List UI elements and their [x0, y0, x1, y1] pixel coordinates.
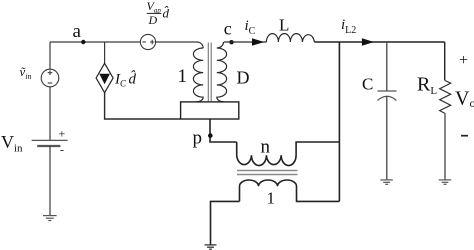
svg-text:d̂: d̂ [163, 6, 170, 21]
ground (load) [439, 180, 452, 184]
inductor L [266, 34, 314, 42]
node c [229, 40, 233, 44]
svg-text:a: a [73, 21, 82, 42]
wire top rail from input corner to voltage source [50, 41, 140, 43]
wire output rail down to capacitor [386, 42, 388, 91]
ac source v~in [41, 69, 59, 87]
wire voltage source to transformer primary [156, 42, 204, 48]
current arrow i_L2 [362, 38, 374, 45]
node p [208, 133, 213, 138]
transformer T1 secondary winding [217, 42, 227, 102]
svg-text:1: 1 [267, 189, 276, 208]
label (Vap/D)d [147, 0, 170, 27]
dependent current source I_C d [96, 63, 113, 92]
transformer T2 bottom winding 1 [240, 180, 340, 201]
capacitor C [378, 91, 397, 101]
battery V_in [32, 127, 68, 157]
transformer T2 top winding n [237, 142, 340, 166]
wire v~in source to battery [49, 87, 51, 140]
resistor R_L [440, 81, 451, 114]
wire battery to input ground [49, 146, 51, 215]
ground (capacitor) [380, 180, 393, 184]
dependent voltage source (Vap/D)d [140, 34, 155, 49]
svg-text:D: D [148, 13, 158, 27]
fraction bar of Vap/D [147, 12, 162, 14]
current arrow i_C [252, 38, 264, 45]
transformer T2 core [237, 171, 298, 175]
wire node c to inductor [224, 41, 267, 43]
ground (transformer) [205, 245, 217, 249]
wire inductor to load corner [314, 41, 444, 43]
wire T2 bottom winding to transformer ground [211, 201, 240, 244]
svg-text:-: - [60, 143, 64, 157]
svg-text:1: 1 [178, 66, 188, 87]
wire T1 bus to node p and to T2 [210, 119, 237, 142]
wire current source bottom to transformer bus [105, 93, 181, 119]
svg-text:C: C [362, 75, 373, 94]
svg-text:D: D [237, 68, 250, 88]
node a [81, 40, 85, 44]
svg-text:n: n [261, 136, 271, 157]
svg-text:p: p [193, 128, 203, 149]
wire output corner down to resistor [444, 42, 446, 81]
wire left rail down from corner to v_in source [49, 42, 51, 69]
svg-text:+: + [59, 127, 66, 141]
wire capacitor to ground [386, 96, 388, 179]
label output minus [461, 135, 468, 137]
wire right bus joining T2 windings to output rail [338, 42, 340, 201]
ground (input) [43, 216, 57, 221]
transformer T1 bottom bus bar [181, 102, 239, 119]
transformer T1 primary winding [193, 48, 203, 102]
transformer T1 core [208, 43, 211, 102]
svg-text:c: c [224, 19, 232, 39]
wire resistor to ground [444, 113, 446, 179]
svg-text:+: + [459, 52, 468, 69]
wire node a down to current source [104, 42, 106, 63]
svg-text:L: L [279, 16, 289, 35]
